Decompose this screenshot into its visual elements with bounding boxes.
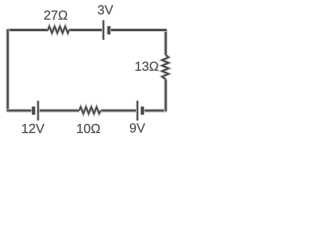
- wire: bottom side, bottom-left corner to 12V battery: [7, 109, 32, 113]
- wire: right side, lower segment (13Ω to bottom corner): [164, 79, 168, 111]
- battery B1 3V: short negative plate: [107, 26, 111, 34]
- battery B3 9V (bottom right): long positive plate: [136, 101, 139, 121]
- label: 13Ω value of R2: [136, 62, 159, 71]
- resistor R2 13Ω (right side, vertical): [162, 55, 168, 79]
- wire: bottom side, 10Ω resistor to 9V battery: [101, 109, 137, 113]
- battery B1 3V (top): long positive plate: [102, 20, 105, 40]
- wire: bottom side, 9V battery to bottom-right corner: [144, 109, 167, 113]
- resistor R1 27Ω (top): [48, 27, 69, 33]
- battery B3 9V: short negative plate: [140, 107, 144, 115]
- label: 12V value of B2: [22, 124, 44, 133]
- wire: top side, 27Ω right lead to 3V battery: [69, 28, 103, 32]
- wire: left side vertical: [6, 29, 10, 111]
- label: 3V value of B1: [98, 5, 113, 14]
- battery B2 12V: long positive plate: [37, 101, 40, 121]
- wire: right side, upper segment (top corner to 13Ω): [164, 29, 168, 55]
- wire: bottom side, 12V battery to 10Ω resistor: [39, 109, 79, 113]
- label: 27Ω value of R1: [44, 11, 67, 20]
- battery B2 12V (bottom left): short negative plate: [31, 107, 35, 115]
- label: 10Ω value of R3: [77, 124, 100, 133]
- wire: top side, 27Ω left lead to top-left corner: [8, 28, 49, 32]
- wire: top side, 3V battery to top-right corner: [110, 28, 166, 32]
- label: 9V value of B3: [130, 123, 145, 132]
- resistor R3 10Ω (bottom): [79, 107, 101, 113]
